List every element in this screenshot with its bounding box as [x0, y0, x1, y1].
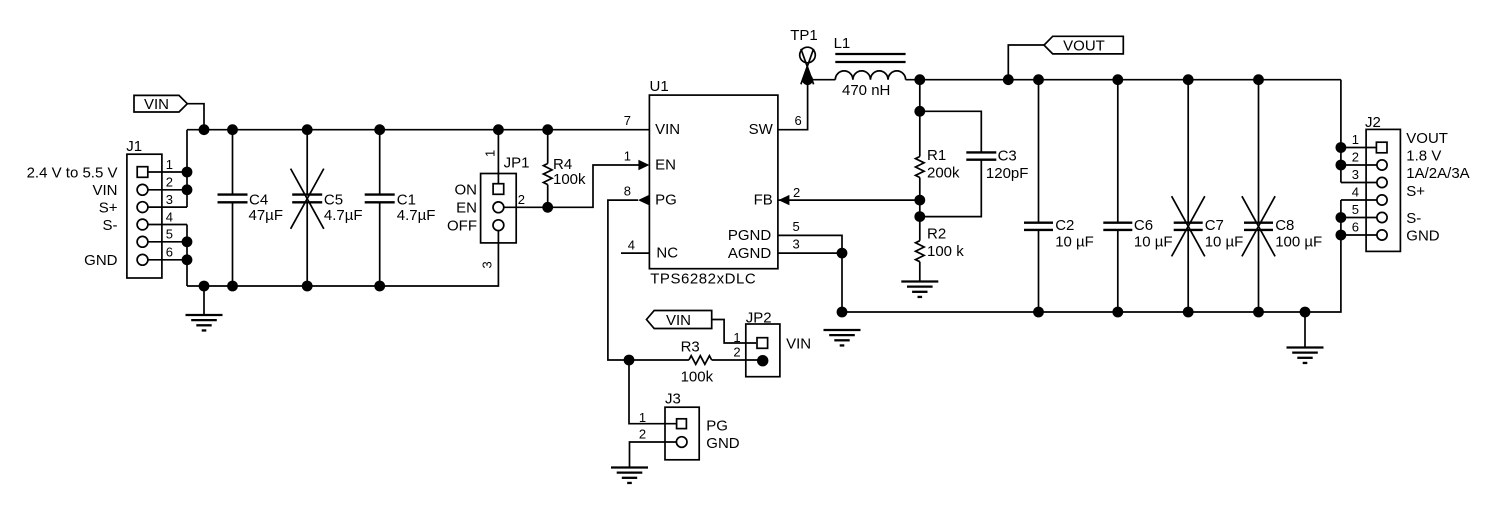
svg-text:SW: SW	[749, 121, 774, 138]
svg-text:1A/2A/3A: 1A/2A/3A	[1406, 165, 1469, 182]
svg-text:3: 3	[166, 192, 173, 207]
svg-text:S-: S-	[103, 217, 118, 234]
svg-text:OFF: OFF	[447, 218, 477, 235]
svg-text:C6: C6	[1134, 217, 1153, 234]
svg-text:200k: 200k	[927, 164, 960, 181]
svg-text:GND: GND	[84, 252, 118, 269]
svg-text:C3: C3	[998, 148, 1017, 165]
svg-text:J1: J1	[126, 138, 142, 155]
svg-text:C7: C7	[1205, 217, 1224, 234]
svg-text:4: 4	[166, 209, 173, 224]
svg-text:3: 3	[1352, 167, 1359, 182]
svg-text:L1: L1	[834, 35, 851, 52]
svg-text:2: 2	[1352, 149, 1359, 164]
svg-text:10 µF: 10 µF	[1134, 233, 1173, 250]
svg-text:J2: J2	[1365, 114, 1381, 131]
svg-text:1: 1	[1352, 132, 1359, 147]
svg-text:1: 1	[733, 330, 740, 345]
svg-text:VIN: VIN	[144, 96, 169, 113]
svg-text:S+: S+	[1406, 183, 1425, 200]
svg-text:10 µF: 10 µF	[1055, 233, 1094, 250]
svg-text:100 µF: 100 µF	[1275, 233, 1322, 250]
svg-text:2: 2	[733, 345, 740, 360]
svg-text:5: 5	[793, 219, 800, 234]
svg-text:EN: EN	[456, 200, 477, 217]
svg-text:1: 1	[624, 149, 631, 164]
svg-text:U1: U1	[650, 78, 669, 95]
svg-text:JP1: JP1	[504, 155, 530, 172]
svg-text:VIN: VIN	[666, 312, 691, 329]
svg-text:4.7µF: 4.7µF	[324, 207, 363, 224]
svg-text:PG: PG	[706, 417, 728, 434]
svg-text:100 k: 100 k	[927, 243, 964, 260]
svg-text:VIN: VIN	[92, 182, 117, 199]
svg-text:4: 4	[628, 238, 635, 253]
svg-text:J3: J3	[665, 390, 681, 407]
svg-text:GND: GND	[706, 435, 740, 452]
svg-text:6: 6	[1352, 219, 1359, 234]
svg-text:3: 3	[793, 237, 800, 252]
svg-text:R3: R3	[681, 338, 700, 355]
svg-text:4.7µF: 4.7µF	[397, 207, 436, 224]
svg-text:100k: 100k	[681, 368, 714, 385]
svg-text:120pF: 120pF	[986, 165, 1029, 182]
svg-text:47µF: 47µF	[249, 207, 284, 224]
svg-text:VOUT: VOUT	[1063, 37, 1105, 54]
svg-text:1: 1	[639, 410, 646, 425]
svg-text:1: 1	[483, 150, 498, 157]
svg-text:NC: NC	[656, 245, 678, 262]
svg-text:EN: EN	[655, 157, 676, 174]
svg-text:5: 5	[166, 227, 173, 242]
svg-text:10 µF: 10 µF	[1205, 233, 1244, 250]
svg-text:ON: ON	[455, 181, 478, 198]
svg-text:2: 2	[793, 185, 800, 200]
svg-text:6: 6	[166, 245, 173, 260]
svg-text:2.4 V to 5.5 V: 2.4 V to 5.5 V	[27, 164, 118, 181]
svg-text:VIN: VIN	[786, 335, 811, 352]
svg-text:C2: C2	[1055, 217, 1074, 234]
svg-text:2: 2	[166, 175, 173, 190]
svg-text:1: 1	[166, 157, 173, 172]
svg-text:TP1: TP1	[790, 27, 818, 44]
svg-text:8: 8	[624, 184, 631, 199]
svg-text:3: 3	[480, 261, 495, 268]
svg-text:6: 6	[795, 113, 802, 128]
svg-text:FB: FB	[754, 192, 773, 209]
svg-text:100k: 100k	[553, 171, 586, 188]
svg-text:7: 7	[624, 113, 631, 128]
svg-text:JP2: JP2	[746, 309, 772, 326]
svg-text:PGND: PGND	[728, 227, 772, 244]
svg-text:TPS6282xDLC: TPS6282xDLC	[650, 271, 756, 288]
svg-text:4: 4	[1352, 184, 1359, 199]
svg-text:R2: R2	[927, 226, 946, 243]
svg-text:S-: S-	[1406, 210, 1421, 227]
svg-text:R1: R1	[927, 147, 946, 164]
svg-text:2: 2	[518, 192, 525, 207]
svg-text:PG: PG	[655, 192, 677, 209]
svg-text:GND: GND	[1406, 227, 1440, 244]
svg-text:5: 5	[1352, 202, 1359, 217]
svg-text:S+: S+	[99, 199, 118, 216]
svg-text:2: 2	[639, 427, 646, 442]
svg-text:C8: C8	[1275, 217, 1294, 234]
svg-text:AGND: AGND	[728, 245, 772, 262]
svg-text:1.8 V: 1.8 V	[1406, 148, 1441, 165]
svg-text:VIN: VIN	[655, 121, 680, 138]
svg-text:470 nH: 470 nH	[842, 82, 890, 99]
svg-text:VOUT: VOUT	[1406, 130, 1448, 147]
